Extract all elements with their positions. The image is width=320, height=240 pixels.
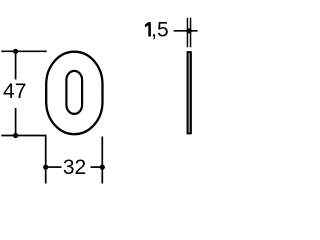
dim 1,5: value label digit 1 (drawn glyph) xyxy=(145,22,151,36)
side view: thin plate profile bar xyxy=(188,52,191,133)
dim 32: dimension line left segment xyxy=(46,166,62,168)
dim 1,5: right extension line xyxy=(190,18,192,48)
dim 32: left dot terminator xyxy=(43,165,48,170)
front view: inner slot (keyhole cutout) xyxy=(66,71,82,114)
front view: outer oval contour of plate xyxy=(46,52,102,135)
dim 1,5: horizontal dimension line xyxy=(174,30,198,32)
dim 47: bottom extension line xyxy=(1,135,46,137)
svg-text:47: 47 xyxy=(3,80,26,103)
dim 32: left extension line xyxy=(45,136,47,184)
dim 32: right extension line xyxy=(101,137,103,184)
dim 1,5: left extension line xyxy=(186,18,188,48)
dim 47: bottom dot terminator xyxy=(13,133,18,138)
svg-text:32: 32 xyxy=(63,156,86,179)
dim 47: vertical dimension line lower segment xyxy=(15,108,17,136)
dim 1,5: dot terminator xyxy=(186,28,191,33)
dim 32: right dot terminator xyxy=(100,165,105,170)
dim 47: top dot terminator xyxy=(13,49,18,54)
svg-text:,5: ,5 xyxy=(151,19,169,42)
dim 47: top extension line xyxy=(1,50,46,52)
dim 32: dimension line right segment xyxy=(91,166,103,168)
dim 47: vertical dimension line upper segment xyxy=(15,51,17,79)
